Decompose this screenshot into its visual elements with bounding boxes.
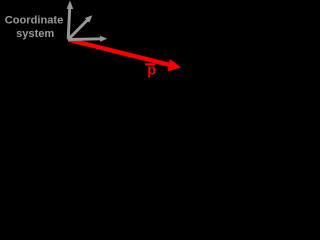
y axis arrow (up) [67, 0, 74, 39]
label "Coordinate system" [5, 14, 64, 40]
vector p (red arrow) [68, 37, 181, 71]
svg-text:system: system [16, 28, 54, 40]
z axis arrow (diagonal) [68, 15, 92, 39]
svg-text:p: p [147, 63, 156, 79]
svg-text:Coordinate: Coordinate [5, 14, 64, 26]
label p-bar (red) [145, 63, 156, 79]
x axis arrow (right) [68, 36, 107, 42]
